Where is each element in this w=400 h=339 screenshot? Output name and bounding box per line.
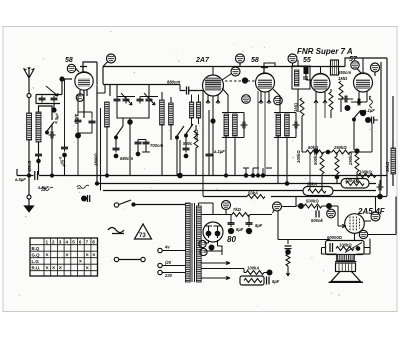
coil L7 [197, 102, 201, 118]
switch S3 [177, 126, 184, 136]
osc sub-box top rail [103, 85, 180, 97]
svg-text:55: 55 [303, 57, 311, 64]
svg-text:×: × [86, 266, 89, 272]
coil L2 secondary [36, 112, 41, 142]
junction dot [211, 119, 215, 123]
resistor R-det vert [339, 81, 343, 99]
capacitor C 580 [183, 146, 190, 153]
wire trimmer to bus [51, 148, 53, 175]
pin circle 90 [236, 54, 245, 63]
svg-text:8: 8 [92, 240, 95, 245]
svg-text:100kA: 100kA [247, 266, 259, 271]
dashed AVC line [225, 80, 256, 82]
coil L3 [105, 102, 110, 127]
junction blob [209, 245, 214, 250]
wire right-edge vertical 2 [380, 62, 382, 190]
grid cap black rect [304, 66, 309, 74]
filter capacitor 8uF b [246, 220, 253, 227]
resistor 1M vert under IFT [300, 98, 304, 116]
bias capacitor [287, 240, 289, 245]
svg-text:G.Q: G.Q [32, 253, 41, 258]
resistor R 50k vert [194, 130, 198, 148]
coupling cap + resistor box [317, 208, 324, 218]
svg-text:2A7: 2A7 [195, 57, 210, 64]
wire right-edge vertical 1 [386, 58, 388, 196]
svg-text:1: 1 [46, 240, 49, 245]
svg-text:8µF: 8µF [236, 227, 244, 232]
grid arrow into tube [338, 206, 346, 228]
resistor vert C [355, 154, 359, 172]
svg-text:680cm: 680cm [120, 156, 133, 161]
wire box-right down [357, 239, 371, 254]
junction dots on bus [95, 182, 98, 185]
warning triangle 73 [135, 224, 152, 239]
switch S2 [116, 126, 123, 136]
vert label right [369, 96, 373, 108]
wire to tube grid [60, 79, 72, 95]
svg-text:250kΩ: 250kΩ [333, 145, 347, 150]
svg-text:×: × [86, 253, 89, 259]
svg-text:FNR Super 7 A: FNR Super 7 A [297, 47, 353, 56]
junction [60, 77, 64, 81]
filter capacitor 8uF a [228, 220, 235, 227]
svg-text:880cm: 880cm [167, 80, 180, 85]
svg-text:7kΩ: 7kΩ [233, 207, 242, 212]
padder capacitor P3 [137, 97, 144, 104]
hum pot box [240, 276, 264, 285]
IFT3 box left of 55 [331, 60, 339, 75]
svg-text:×: × [59, 266, 62, 272]
output transformer winding [337, 255, 355, 261]
blob cap [345, 106, 350, 111]
capacitor C880 series [180, 87, 203, 95]
wire 130 up to bus [364, 197, 375, 222]
wire 180 drop [179, 140, 181, 175]
bus C y190 [103, 190, 376, 192]
mains switch S6 [114, 203, 118, 207]
tone wiper [345, 243, 362, 253]
wire plate to IFT1 [222, 88, 228, 112]
power transformer T4 primary [185, 203, 190, 282]
switch S5 [354, 110, 361, 118]
svg-text:500kΩ: 500kΩ [306, 199, 319, 204]
tuning cap TC1 with arrow [46, 86, 58, 96]
dots on bus y175 [244, 174, 247, 177]
resistor vert B [335, 156, 339, 174]
svg-text:57: 57 [349, 56, 358, 63]
svg-text:50kA: 50kA [248, 191, 258, 196]
pin circle 48 [274, 96, 283, 105]
grid cap blob [242, 78, 247, 83]
wire box-left down [322, 248, 337, 255]
junction [37, 159, 40, 162]
terminal 220 [158, 270, 162, 274]
junction [27, 174, 30, 177]
svg-text:30kΩ: 30kΩ [385, 161, 390, 172]
svg-text:1MΩ: 1MΩ [293, 102, 298, 112]
resistor vert diode load [329, 92, 333, 110]
svg-text:×: × [52, 266, 55, 272]
wire L2 bottom [38, 142, 40, 152]
pin circle 3B [359, 230, 367, 238]
rounded resistor box on busB [341, 179, 369, 189]
terminal 4v [158, 248, 162, 252]
wire plate right to edge [368, 197, 397, 235]
tube V4 55 [311, 74, 330, 93]
tube V6 80 [203, 222, 223, 242]
resistor 7k choke [232, 213, 250, 217]
wire switch to transformer [135, 204, 186, 206]
wire cathode down [258, 91, 265, 175]
svg-text:7: 7 [86, 240, 89, 245]
svg-text:100kΩ: 100kΩ [296, 150, 301, 163]
tube V4 leads [314, 92, 327, 104]
svg-text:×: × [46, 266, 49, 272]
resistor R-busD 50k zigzag [247, 195, 265, 199]
tone cap [330, 243, 333, 252]
svg-text:250kΩ: 250kΩ [348, 152, 353, 166]
svg-text:73: 73 [139, 233, 146, 239]
IF transformer T2 [276, 114, 281, 136]
pin circle g1 [67, 64, 75, 72]
svg-text:8µF: 8µF [272, 279, 280, 284]
coil top right of V3 [292, 66, 310, 89]
tube V2 2A7 [203, 75, 224, 96]
tube V2 leads [206, 95, 220, 110]
svg-text:58: 58 [65, 57, 73, 64]
pin circle 1B [327, 209, 336, 218]
svg-text:×: × [79, 259, 82, 265]
svg-text:580c: 580c [183, 141, 193, 146]
tube V3 leads [259, 91, 271, 104]
pin circle 200 [288, 54, 297, 63]
junction dots [314, 149, 318, 153]
terminal circle [27, 195, 31, 199]
pin circle 40 [231, 67, 240, 76]
svg-text:a.1µF: a.1µF [364, 108, 375, 113]
antenna terminal [27, 94, 31, 98]
wire tube top to bus [83, 62, 97, 184]
aux terminals pair [114, 257, 118, 261]
T4 core [192, 203, 195, 282]
svg-text:4: 4 [66, 240, 69, 245]
tone box [326, 241, 365, 255]
wire V5 top [362, 58, 364, 73]
wire IFT1 down [226, 136, 235, 175]
wire top cap bend [264, 63, 275, 68]
wire x302 [301, 118, 303, 152]
tube V7 2A5 [345, 214, 365, 234]
wire V4 plate up [320, 67, 322, 74]
wire x310 down [309, 152, 311, 190]
rounded resistor box on busC [303, 187, 333, 196]
wire cap down to 250k row [358, 123, 372, 152]
pin circle 30 on top bus [107, 54, 116, 63]
arabic label a [41, 187, 53, 191]
svg-text:6: 6 [79, 240, 82, 245]
svg-text:50000Ω: 50000Ω [327, 235, 343, 240]
coil L6 [190, 102, 194, 118]
pin circle k [76, 94, 84, 102]
bus B y183.5 [97, 183, 376, 185]
capacitor C2 [35, 152, 42, 159]
pin circle 10 [371, 63, 380, 72]
wire grid cap lead [76, 69, 79, 73]
svg-text:R.U.: R.U. [32, 266, 41, 271]
switch S1 [47, 122, 54, 131]
tube V5 57 [354, 73, 373, 92]
svg-text:×: × [92, 253, 95, 259]
capacitor C-ant 0.5uF series in ground bus [35, 171, 38, 180]
coil right edge [391, 148, 395, 174]
speaker magnet [336, 263, 356, 272]
svg-text:1MΩ: 1MΩ [338, 76, 348, 81]
coil L4 osc [160, 100, 165, 125]
station table outer [30, 238, 98, 276]
caps above bus y175 [243, 168, 272, 175]
osc grid components [202, 91, 204, 111]
svg-text:8µF: 8µF [255, 223, 263, 228]
trimmer cluster 700cm [135, 140, 142, 147]
svg-text:480.Ω: 480.Ω [27, 160, 32, 173]
wire cathode down [64, 79, 66, 145]
capacitor trimmer [49, 132, 56, 139]
antenna [24, 67, 35, 93]
wire L1 to ground bus [28, 140, 30, 175]
filament loop under 80 [204, 240, 222, 255]
ground [25, 199, 34, 212]
svg-text:×: × [46, 253, 49, 259]
svg-text:50kA: 50kA [307, 182, 317, 187]
svg-text:50kΩ: 50kΩ [194, 129, 199, 140]
padder capacitor P1 [114, 97, 121, 104]
pin circle 4v f1 [199, 240, 206, 247]
heater arrows right [201, 262, 244, 280]
wire antenna down [28, 98, 30, 114]
IF transformer T1 [224, 114, 229, 136]
capacitor C-ift2 [293, 122, 300, 129]
pin circle 4v f2 [200, 248, 207, 255]
right cap at bus [377, 184, 384, 191]
capacitor Ck loop [78, 95, 92, 118]
svg-text:100kΩ: 100kΩ [339, 243, 352, 248]
capacitor 8uF c [267, 277, 270, 285]
svg-text:80: 80 [227, 235, 236, 244]
svg-text:220: 220 [164, 273, 173, 278]
tube V3 58 [256, 73, 275, 92]
cap + blob right [366, 118, 371, 123]
svg-text:58: 58 [251, 57, 259, 64]
svg-text:700cm: 700cm [150, 143, 163, 148]
bus D y196 [203, 196, 387, 198]
table rows [30, 245, 98, 271]
wire stub [97, 84, 105, 93]
svg-text:3: 3 [59, 240, 62, 245]
input caps pair rails [36, 95, 62, 104]
wire bus left end down [102, 67, 104, 85]
wire ground drop [28, 176, 30, 196]
pin circle 130 [371, 212, 380, 221]
table columns [44, 238, 91, 276]
padder capacitor P4 [146, 97, 153, 104]
terminal 120 [158, 263, 162, 267]
svg-text:850cm: 850cm [338, 70, 351, 75]
AC squiggle symbol [108, 228, 124, 233]
capacitor C-ift1 [241, 122, 248, 129]
tube V5 leads [357, 91, 367, 104]
capacitor Cd [61, 145, 68, 152]
padder capacitor P2 [123, 97, 130, 104]
svg-text:500ok: 500ok [311, 218, 324, 223]
T4 secondary [196, 206, 201, 282]
coil L5 osc sec [169, 103, 174, 125]
wire tube to circuit below [80, 90, 87, 118]
coil L1 primary [27, 113, 32, 140]
wires below V4 [316, 104, 325, 150]
arabic label b [77, 185, 89, 189]
tuning arrow [121, 93, 132, 105]
wire L2 top loop [39, 106, 53, 120]
wire tube to box [354, 233, 356, 240]
svg-text:L.G: L.G [32, 259, 40, 264]
resistor vert A [320, 156, 324, 174]
bus ground y175 [17, 169, 387, 176]
blob capacitor on bus [82, 196, 87, 201]
wire right-edge vertical 3 [392, 96, 394, 186]
pin circle 300 [273, 202, 282, 211]
tube V1 58 [75, 72, 93, 90]
wires IFT2 down [278, 136, 287, 183]
wire plate to IFT2 [273, 89, 280, 112]
svg-text:×: × [66, 253, 69, 259]
junction node osc [117, 104, 149, 123]
tuning arrow 2 [144, 93, 155, 105]
capacitor C 4.5uF [113, 146, 120, 153]
svg-text:480Ω: 480Ω [73, 113, 79, 125]
wire T4 top to 80 anode [201, 208, 290, 222]
svg-text:500kΩ: 500kΩ [313, 152, 318, 165]
svg-text:(20: (20 [165, 260, 172, 265]
detector caps [343, 96, 350, 103]
speaker cone [331, 272, 361, 282]
pin circle 14 [351, 61, 359, 69]
HT bus from rectifier [201, 207, 330, 240]
tone resistor [336, 247, 354, 251]
pin circle 4v top [222, 201, 231, 210]
wire top bus B+ screen [103, 58, 387, 67]
svg-text:4v: 4v [164, 245, 170, 250]
capacitor C 0.1uF under 2A7 [206, 152, 213, 159]
switch S4 [186, 124, 193, 134]
bias resistor [286, 254, 290, 276]
capacitor Ca [39, 96, 46, 103]
svg-text:4800Ω: 4800Ω [94, 153, 99, 167]
svg-text:a.1µF: a.1µF [214, 149, 225, 154]
feeder line x100 [100, 108, 102, 191]
resistor on bus y175 [358, 174, 376, 178]
pin circle 1.2 [242, 95, 251, 104]
svg-text:a.5µF: a.5µF [15, 177, 26, 182]
svg-text:B.Q: B.Q [32, 246, 40, 251]
dot on busB [285, 182, 288, 185]
svg-text:2: 2 [52, 240, 55, 245]
svg-text:5: 5 [72, 240, 75, 245]
junction dot [52, 108, 56, 112]
capacitor Cb [51, 96, 58, 103]
